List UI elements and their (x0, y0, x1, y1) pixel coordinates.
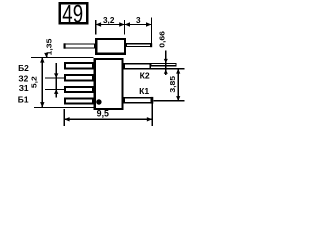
lead 4 (Б1) (65, 98, 93, 103)
pitch extension line lower (lead 3 center) (45, 88, 64, 90)
dimension 3,85 line (177, 69, 179, 101)
arrowhead 9,5 left (64, 117, 69, 121)
arrowhead 3,2 left (96, 22, 101, 26)
dimension 3,2 tick middle (124, 20, 126, 35)
svg-text:1,35: 1,35 (45, 38, 53, 55)
svg-text:49: 49 (62, 0, 83, 28)
lead pitch dimension line (55, 63, 57, 98)
pitch arrowhead up (54, 89, 58, 94)
figure number box 49 (60, 3, 88, 23)
dimension line 3,2 and 3 (96, 24, 152, 26)
lead К2 thin end section (151, 64, 176, 66)
lead 2 (З2) (65, 75, 93, 80)
lead 3 (З1) (65, 87, 93, 92)
pitch arrowhead down (54, 73, 58, 78)
dimension text 1,35 arrow (46, 53, 48, 57)
3,85 arrowhead up (176, 69, 180, 74)
К1 extension line right (153, 100, 184, 102)
bottom extension line (34, 106, 94, 108)
svg-text:3,85: 3,85 (169, 75, 177, 92)
pin index dot (96, 99, 101, 104)
lead К1 (124, 98, 151, 103)
side view left lead end cap (64, 43, 66, 48)
pitch extension line upper (lead 2 center) (45, 77, 64, 79)
dimension 3 tick right (150, 18, 152, 48)
3,85 arrowhead down (176, 96, 180, 101)
lead К1 end cap (151, 97, 154, 104)
arrowhead 3,2 right (119, 22, 124, 26)
arrowhead 5,2 up (40, 57, 44, 62)
svg-text:Б2: Б2 (18, 63, 29, 73)
svg-text:К2: К2 (140, 71, 150, 81)
dimension 9,5 line (64, 118, 152, 120)
lead К2 thick section (124, 64, 150, 69)
9,5 extension line left (63, 109, 65, 126)
0,66 arrowhead up (164, 70, 168, 74)
side view body (96, 39, 125, 54)
arrowhead 9,5 right (147, 117, 152, 121)
side view left lead (64, 44, 94, 48)
svg-text:3,2: 3,2 (103, 16, 115, 25)
svg-text:0,66: 0,66 (158, 31, 167, 48)
svg-text:9,5: 9,5 (97, 108, 109, 118)
front view body (95, 59, 123, 109)
side view right lead (127, 44, 152, 47)
dimension 0,66 arrow line (165, 51, 167, 75)
arrowhead 5,2 down (40, 102, 44, 107)
svg-text:З1: З1 (19, 83, 29, 93)
dimension 5,2 line (41, 57, 43, 107)
dimension 3,2 tick left (95, 20, 97, 35)
lead 1 (Б2) (65, 63, 93, 68)
svg-text:Б1: Б1 (18, 94, 29, 104)
svg-text:3: 3 (136, 16, 141, 25)
svg-text:З2: З2 (18, 73, 28, 83)
side view right lead end cap (150, 43, 152, 47)
svg-text:К1: К1 (139, 86, 149, 96)
arrowhead 3 left (125, 22, 130, 26)
arrowhead 3 right (146, 22, 151, 26)
svg-text:5,2: 5,2 (30, 75, 38, 88)
К2 bottom extension line (151, 68, 185, 70)
0,66 arrowhead down (164, 59, 168, 63)
К1 extension line down (151, 104, 153, 126)
seating plane extension line (31, 56, 94, 58)
